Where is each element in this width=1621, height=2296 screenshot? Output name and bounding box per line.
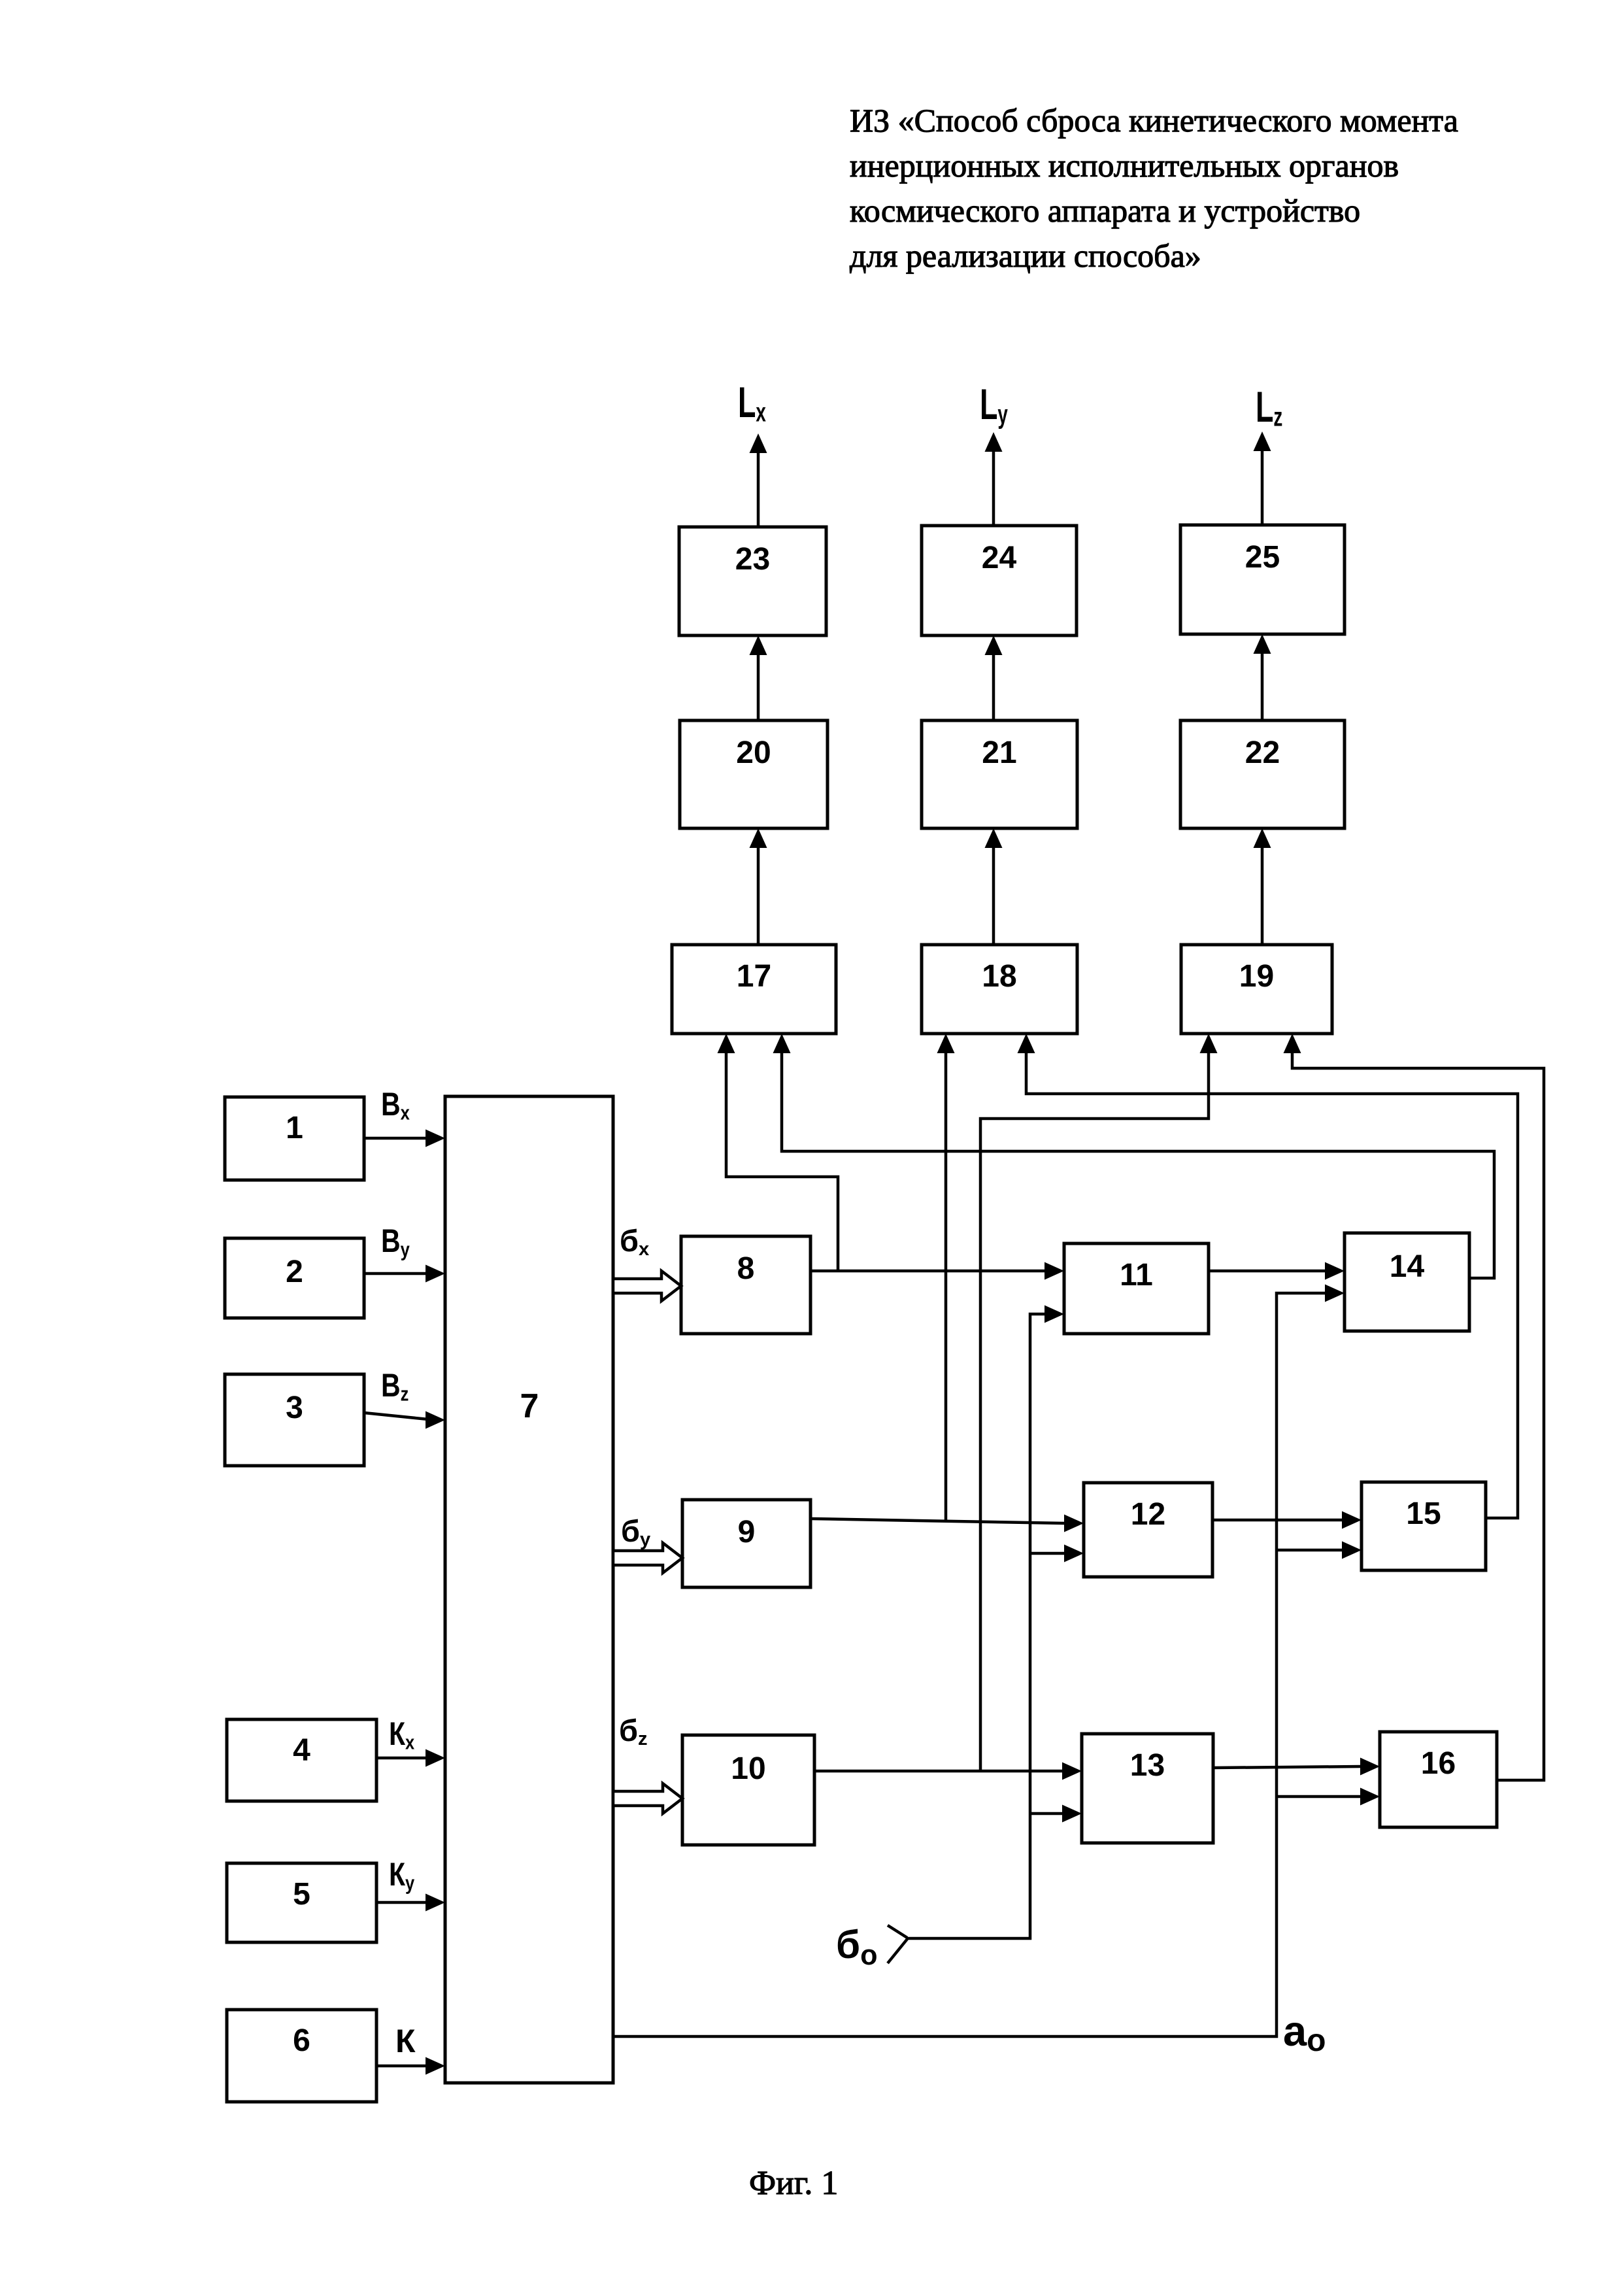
svg-text:13: 13	[1130, 1748, 1165, 1783]
svg-text:7: 7	[520, 1387, 539, 1425]
svg-text:2: 2	[286, 1255, 303, 1289]
svg-text:22: 22	[1245, 735, 1280, 770]
svg-text:11: 11	[1120, 1258, 1153, 1292]
svg-text:Фиг. 1: Фиг. 1	[749, 2165, 838, 2202]
svg-text:21: 21	[982, 735, 1016, 770]
svg-text:20: 20	[736, 735, 771, 770]
svg-text:К: К	[395, 2023, 416, 2059]
svg-text:космического аппарата и устрой: космического аппарата и устройство	[850, 192, 1360, 229]
svg-text:16: 16	[1421, 1746, 1456, 1781]
svg-text:18: 18	[982, 959, 1016, 994]
svg-text:6: 6	[293, 2023, 310, 2058]
svg-text:19: 19	[1239, 959, 1274, 994]
svg-text:24: 24	[982, 541, 1017, 575]
svg-text:12: 12	[1131, 1497, 1165, 1532]
svg-text:15: 15	[1406, 1496, 1441, 1531]
svg-text:17: 17	[737, 959, 771, 994]
svg-text:9: 9	[738, 1515, 756, 1549]
svg-text:ИЗ «Способ сброса кинетическог: ИЗ «Способ сброса кинетического момента	[850, 102, 1458, 139]
svg-text:23: 23	[735, 542, 770, 577]
svg-text:5: 5	[293, 1877, 310, 1912]
svg-text:1: 1	[286, 1111, 303, 1145]
svg-text:25: 25	[1245, 540, 1280, 575]
svg-text:10: 10	[731, 1751, 765, 1786]
svg-text:3: 3	[286, 1391, 303, 1425]
svg-text:инерционных исполнительных орг: инерционных исполнительных органов	[850, 147, 1399, 184]
svg-text:4: 4	[293, 1733, 310, 1768]
svg-text:14: 14	[1390, 1249, 1425, 1284]
svg-text:8: 8	[737, 1251, 755, 1286]
svg-text:для реализации способа»: для реализации способа»	[850, 237, 1201, 274]
